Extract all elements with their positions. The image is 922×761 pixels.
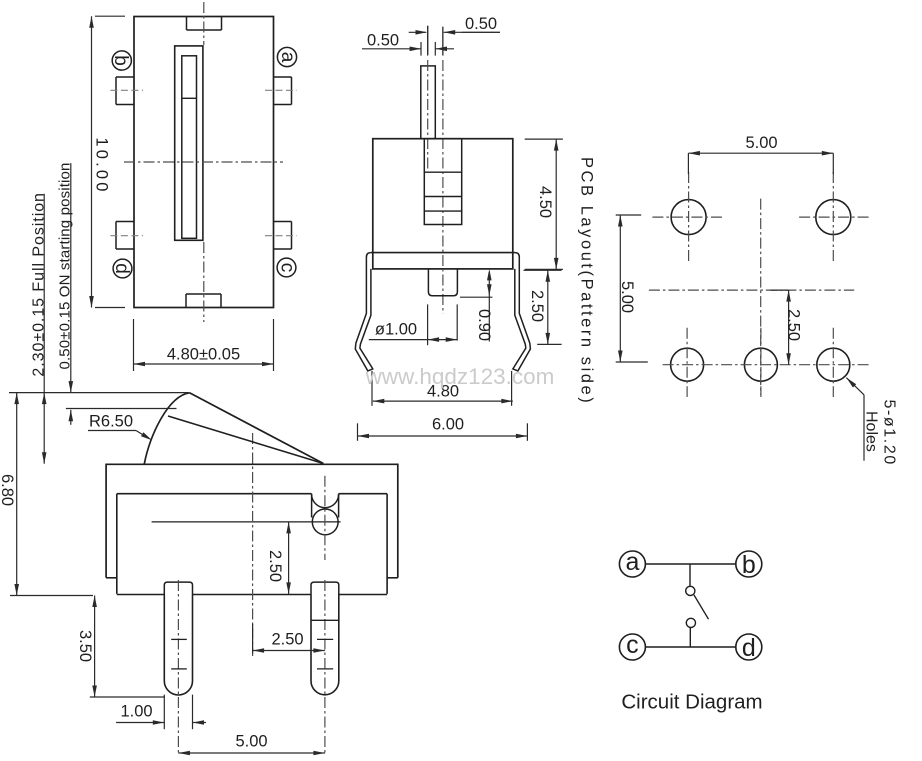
front view body (373, 139, 513, 269)
svg-text:b: b (742, 551, 756, 579)
svg-text:4.80±0.05: 4.80±0.05 (167, 346, 240, 364)
dim 5.00 pcb top (687, 153, 689, 174)
svg-text:5-ø1.20: 5-ø1.20 (881, 400, 898, 466)
top view right lower tab (274, 221, 292, 223)
dim 5.00 pcb left (616, 214, 642, 216)
side view lever bottom edge (168, 416, 323, 464)
pcb central vertical centerline (760, 199, 762, 395)
circuit terminal c (619, 634, 645, 660)
svg-text:2.50: 2.50 (271, 631, 303, 649)
circuit terminal a (619, 551, 645, 577)
front view lever centerline (427, 26, 429, 56)
svg-text:2.30±0.15 Full Position: 2.30±0.15 Full Position (30, 192, 47, 377)
side view lever top edge (190, 393, 324, 464)
dim 10.00 (95, 15, 125, 17)
svg-text:0.50: 0.50 (367, 31, 399, 49)
dim 0.50 right top left arrow (409, 31, 427, 33)
side view inner body (117, 494, 387, 594)
side view bottom edge (117, 594, 165, 596)
side view right leg (311, 582, 339, 594)
svg-text:d: d (111, 263, 132, 274)
switch arm (694, 595, 709, 619)
label 5-ø1.20 Holes (846, 378, 856, 388)
front view bracket top flange (371, 252, 515, 254)
front view lever shaft (421, 66, 436, 139)
wire c-d (646, 646, 736, 648)
dim 2.50 legs (252, 624, 254, 654)
dim 4.50 (525, 138, 563, 140)
side view lever arc (144, 393, 189, 465)
circuit terminal d (736, 634, 762, 660)
svg-text:R6.50: R6.50 (89, 413, 133, 431)
hole bottom-mid (744, 348, 777, 381)
dim 4.80 front (371, 371, 373, 406)
front view left wing (355, 253, 373, 371)
top view slot outer (175, 46, 203, 240)
dim 2.50 pcb (770, 289, 788, 291)
svg-text:5.00: 5.00 (745, 134, 777, 152)
side view body centerline (252, 433, 254, 656)
switch pole stub bottom (689, 628, 691, 648)
svg-text:2.50: 2.50 (785, 309, 803, 341)
bottom row crosshair (663, 364, 869, 366)
leg centerlines (177, 580, 179, 753)
svg-text:Circuit Diagram: Circuit Diagram (621, 691, 762, 714)
top view left upper tab (116, 76, 134, 78)
top view top tab (186, 17, 188, 31)
terminal label c (277, 258, 296, 277)
dim 2.50 side inner (288, 522, 290, 594)
svg-text:4.50: 4.50 (536, 186, 554, 218)
wire a-b (646, 563, 736, 565)
top view bottom tab (185, 294, 187, 308)
dim 6.00 (357, 423, 359, 441)
top view horizontal centerline (124, 161, 283, 163)
switch pole stub top (689, 564, 691, 586)
terminal label a (277, 47, 296, 66)
svg-text:a: a (625, 548, 639, 576)
svg-text:5.00: 5.00 (235, 733, 267, 751)
svg-text:2.50: 2.50 (266, 550, 284, 582)
hole top-left (671, 200, 706, 235)
terminal label d (113, 259, 132, 278)
top view vertical centerline (203, 2, 205, 45)
top view tab centerlines (110, 89, 143, 91)
top view slot inner (182, 56, 197, 239)
svg-text:6.00: 6.00 (432, 416, 464, 434)
svg-text:Holes: Holes (863, 411, 880, 452)
side view left leg (164, 582, 192, 594)
top view right upper tab (274, 76, 292, 78)
svg-text:2.50: 2.50 (528, 290, 546, 322)
dim 0.90 (460, 296, 492, 298)
dim 0.50 right top (442, 27, 444, 55)
svg-text:6.80: 6.80 (0, 474, 16, 506)
dim 6.80 (16, 393, 18, 596)
hole top-right (816, 200, 851, 235)
full position line (9, 392, 189, 394)
svg-text:1.00: 1.00 (120, 702, 152, 720)
side view pivot line (152, 521, 341, 523)
label 0.50 ON starting position (70, 163, 72, 393)
ON position line (66, 408, 177, 410)
svg-text:0.50±0.15 ON starting position: 0.50±0.15 ON starting position (56, 162, 73, 369)
svg-text:ø1.00: ø1.00 (375, 321, 417, 339)
top view slot divider (182, 97, 197, 99)
side view outer body (106, 464, 398, 578)
label 2.30 full position (43, 194, 45, 464)
svg-text:0.50: 0.50 (465, 15, 497, 33)
svg-text:5.00: 5.00 (618, 281, 636, 313)
front view center boss (428, 269, 457, 296)
front view body centerline (442, 27, 444, 56)
switch contact top (686, 586, 695, 595)
svg-text:10.00: 10.00 (93, 137, 111, 194)
svg-text:d: d (742, 634, 756, 662)
svg-text:b: b (110, 55, 131, 66)
hole bottom-left (671, 348, 704, 381)
switch contact bottom (686, 618, 695, 627)
side view pivot circle (312, 509, 338, 535)
dim ø1.00 (427, 304, 429, 345)
side view pivot notch (311, 494, 313, 518)
pcb mid horizontal centerline (649, 289, 854, 291)
top view left lower tab (116, 221, 134, 223)
front view pocket (424, 139, 461, 225)
svg-text:www.hqdz123.com: www.hqdz123.com (365, 364, 555, 389)
hole bottom-right (817, 348, 850, 381)
terminal label b (112, 51, 131, 70)
top view switch body (134, 17, 274, 308)
front view right wing (513, 253, 531, 371)
dim 3.50 (94, 596, 96, 698)
svg-text:c: c (626, 631, 639, 659)
side view vertical centerline right (324, 476, 326, 560)
svg-text:c: c (277, 263, 298, 273)
svg-text:0.90: 0.90 (475, 309, 493, 341)
leg tick marks (171, 638, 187, 640)
circuit terminal b (736, 551, 762, 577)
svg-text:PCB Layout(Pattern side): PCB Layout(Pattern side) (578, 157, 596, 405)
dim 2.50 front (523, 269, 561, 271)
dim 5.00 bottom (178, 752, 325, 754)
svg-text:3.50: 3.50 (76, 630, 94, 662)
dim 4.80±0.05 (133, 319, 135, 371)
svg-text:a: a (277, 52, 298, 63)
